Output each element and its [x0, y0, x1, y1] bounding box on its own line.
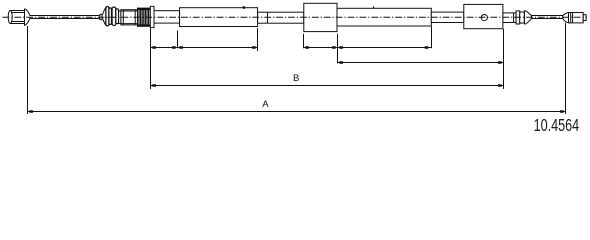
- extension line x257.5 (d2 right): [257, 28, 259, 51]
- extension line x503.5 (d5 right / B right): [503, 29, 505, 89]
- grommet block 1: [304, 3, 337, 31]
- left nipple bell: [25, 9, 30, 26]
- mounting hole: [481, 15, 487, 21]
- washer 1: [516, 11, 520, 24]
- boot bell (left flare of rubber boot): [102, 7, 106, 26]
- weld tick on conduit: [373, 6, 375, 8]
- connecting tube right: [431, 12, 464, 22]
- cable stop ferrule before boot: [100, 14, 102, 20]
- inner cable (right bare section): [532, 16, 564, 19]
- conduit tube: [337, 6, 431, 26]
- d5 arrows: [338, 61, 343, 64]
- extension line x150 (B left / d1 left): [150, 28, 152, 89]
- right end bell: [563, 13, 569, 23]
- d4 arrows: [338, 46, 343, 49]
- d1 arrows: [151, 46, 156, 49]
- washer 2: [520, 12, 525, 23]
- left cable end nipple barrel: [8, 11, 24, 24]
- dimension B line: [151, 85, 504, 87]
- dimension d2 line: [178, 47, 258, 49]
- connecting tube left: [258, 12, 304, 23]
- small tube: [154, 11, 180, 23]
- dimension A line: [28, 111, 566, 113]
- step tube: [503, 13, 516, 23]
- svg-text:B: B: [293, 73, 299, 84]
- right end cap: [583, 15, 586, 21]
- d3 arrows: [304, 46, 309, 49]
- A arrows: [28, 110, 33, 113]
- extension line x337.5 (d3 right / d4 left / d5 left): [337, 34, 339, 63]
- d2 arrows: [178, 46, 183, 49]
- B arrows: [151, 84, 156, 87]
- extension line x27.5 (A left): [27, 26, 29, 114]
- svg-text:10.4564: 10.4564: [534, 115, 580, 135]
- dimension d1 line: [151, 47, 178, 49]
- dimension d5 line: [338, 62, 504, 64]
- ferrule cylinder: [119, 10, 138, 25]
- extension line x565.5 (A right): [565, 23, 567, 114]
- center axis dash-dot line: [3, 16, 588, 18]
- dimension d4 line: [338, 47, 432, 49]
- dimension d3 line: [304, 47, 338, 49]
- extension line x178 (d1 right / d2 left): [177, 31, 179, 49]
- extension line x303.5 (d3 left): [303, 34, 305, 48]
- extension line x431.5 (d4 right): [431, 26, 433, 48]
- rubber boot convolutions: [106, 7, 119, 26]
- boot cup: [525, 11, 532, 25]
- inner cable (left bare section): [30, 16, 102, 19]
- bracket block 2: [464, 4, 503, 28]
- big outer tube: [180, 6, 258, 26]
- svg-text:A: A: [262, 99, 269, 110]
- weld tick on big tube: [243, 6, 245, 9]
- flange collar: [150, 6, 154, 27]
- right end barrel: [569, 13, 584, 23]
- knurled adjuster section: [138, 8, 151, 26]
